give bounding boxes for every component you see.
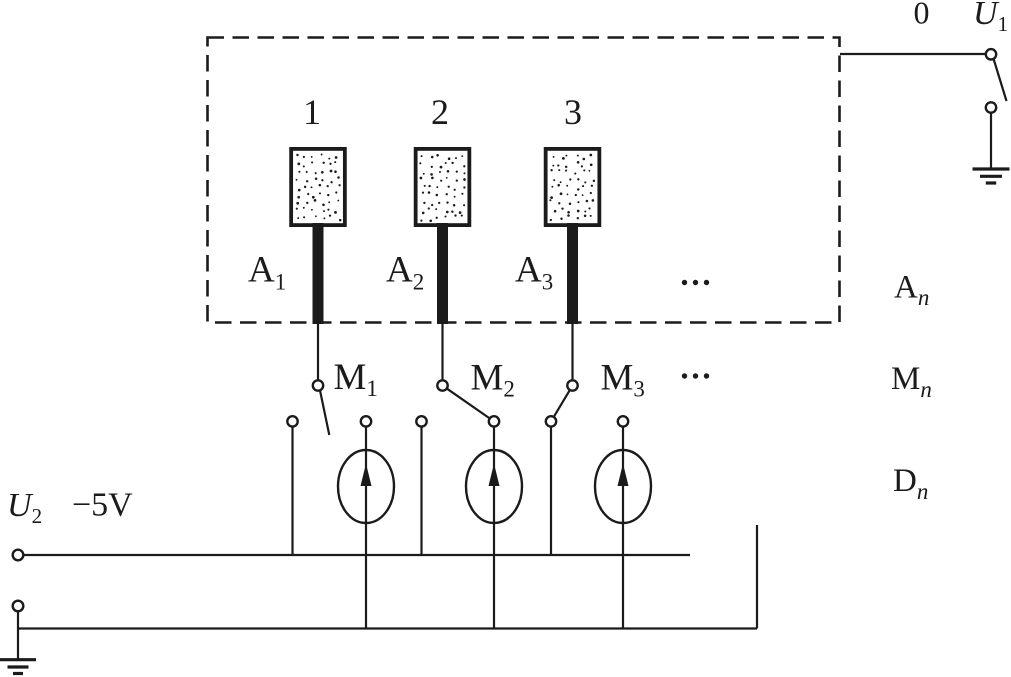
- wire electrode 1 to switch M1: [317, 322, 319, 380]
- contact: M2 right throw (D2 top): [489, 416, 499, 426]
- svg-text:2: 2: [431, 92, 449, 132]
- ground symbol (bottom left): [0, 660, 36, 674]
- label 3 (electrode number): [564, 92, 582, 132]
- wire D2 branch to ground bus: [493, 427, 495, 629]
- ground bus wire: [18, 627, 757, 629]
- current source D1: [338, 450, 394, 523]
- ground symbol (top right): [973, 169, 1010, 183]
- wire M2 left throw to -5V bus: [420, 427, 422, 555]
- wire electrode 3 to switch M3: [571, 322, 573, 380]
- terminal U2 (-5V input): [13, 550, 24, 561]
- terminal (ground side of U2): [13, 601, 24, 612]
- svg-text:−5V: −5V: [72, 487, 133, 524]
- label Mn: [891, 361, 932, 402]
- label A1: [248, 250, 286, 295]
- wire electrode 2 to switch M2: [441, 322, 443, 380]
- switch M2 pivot contact: [437, 380, 447, 390]
- wire D1 branch to ground bus: [365, 427, 367, 629]
- switch M1 blade (open position): [320, 390, 329, 435]
- electrode 2 (stippled body and stem): [416, 149, 470, 324]
- label Dn: [893, 463, 928, 504]
- wire from array box to switch S0: [840, 53, 986, 55]
- label U2: [7, 487, 42, 528]
- electrode 1 (stippled body and stem): [291, 149, 345, 324]
- switch M1 pivot contact: [313, 380, 323, 390]
- riser wire at right end of ground bus: [756, 525, 758, 629]
- label A3: [515, 250, 553, 295]
- contact: M3 right throw (D3 top): [618, 416, 628, 426]
- label 2 (electrode number): [431, 92, 449, 132]
- ellipsis (switch row): [682, 373, 709, 378]
- label M2: [471, 358, 515, 402]
- svg-text:1: 1: [303, 92, 321, 132]
- label M3: [601, 358, 645, 402]
- wire M1 left throw to -5V bus: [291, 427, 293, 555]
- switch S0 blade (open): [994, 59, 1007, 101]
- -5V bus wire: [23, 554, 690, 556]
- label M1: [334, 357, 378, 401]
- wire M3 left throw to -5V bus: [550, 427, 552, 555]
- switch M2 blade (closed to D2 contact): [447, 389, 489, 418]
- label 1 (electrode number): [303, 92, 321, 132]
- label An: [894, 270, 929, 311]
- contact: M1 right throw (D1 top): [361, 416, 371, 426]
- switch M3 pivot contact: [567, 380, 577, 390]
- contact: M3 left throw (-5V side): [546, 416, 556, 426]
- wire S0 throw to ground: [990, 113, 992, 169]
- current source D2: [466, 450, 522, 523]
- wire terminal to ground: [17, 611, 19, 661]
- ellipsis (electrode row): [682, 280, 709, 285]
- label U1: [973, 0, 1008, 36]
- label 0 (open position of switch S0): [914, 0, 930, 31]
- wire D3 branch to ground bus: [622, 427, 624, 629]
- switch M3 blade (closed to -5V contact): [554, 390, 570, 416]
- switch S0 pole contact: [986, 49, 996, 59]
- electrode 3 (stippled body and stem): [546, 149, 600, 324]
- svg-text:3: 3: [564, 92, 582, 132]
- contact: M1 left throw (-5V side): [287, 416, 297, 426]
- dashed sensor-array enclosure: [208, 38, 840, 323]
- label A2: [386, 250, 424, 295]
- switch S0 throw contact: [986, 102, 996, 112]
- current source D3: [595, 450, 651, 523]
- contact: M2 left throw (-5V side): [416, 416, 426, 426]
- label -5V: [72, 487, 133, 524]
- svg-text:0: 0: [914, 0, 930, 31]
